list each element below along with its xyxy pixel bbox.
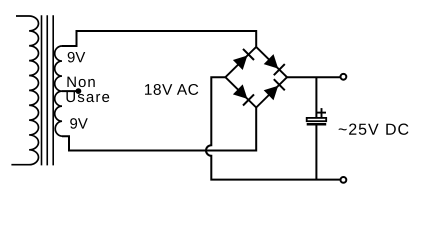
diode D4 (bottom->right)	[264, 79, 285, 100]
core line 1	[41, 15, 43, 165]
label Non	[67, 77, 94, 87]
capacitor C1 lead bottom	[315, 125, 317, 179]
wire bridge edge bottom-right	[256, 77, 287, 107]
wire secondary center tap	[62, 90, 78, 92]
label 18V AC	[145, 84, 198, 95]
diode bridge edges	[225, 47, 287, 108]
transformer core (3 lines)	[42, 15, 54, 165]
wire secondary top tap to bridge top	[62, 31, 256, 47]
diode D2 (top->right)	[264, 54, 285, 75]
transformer T1 secondary winding	[55, 46, 62, 136]
capacitor C1 minus plate	[307, 123, 327, 126]
node center tap dot	[76, 88, 82, 94]
diode D3 (left->bottom)	[233, 84, 254, 105]
label Usare	[66, 92, 109, 102]
wire bridge edge left-bottom	[225, 77, 256, 107]
diode D1 (left->top)	[233, 49, 254, 70]
label 9V (bottom)	[70, 118, 88, 129]
capacitor plus sign	[317, 108, 326, 117]
core line 2	[46, 15, 48, 165]
capacitor C1 plus plate (open box)	[307, 118, 327, 121]
terminal + output circle	[341, 74, 347, 80]
wire bridge right corner to + terminal	[287, 76, 340, 78]
core line 3	[52, 15, 54, 165]
wire primary top lead into winding	[11, 16, 38, 165]
label ~25V DC	[339, 124, 409, 135]
wire bridge edge top-right	[256, 47, 287, 77]
wire bridge edge left-top	[225, 47, 256, 77]
terminal - output circle	[341, 177, 347, 183]
transformer T1 primary winding	[11, 16, 38, 165]
wire bridge left corner to bottom rail (with hop over AC wire)	[206, 77, 340, 179]
label 9V (top)	[68, 52, 86, 63]
wire secondary bottom tap to bridge bottom	[62, 108, 256, 151]
capacitor C1 lead top	[315, 77, 317, 118]
